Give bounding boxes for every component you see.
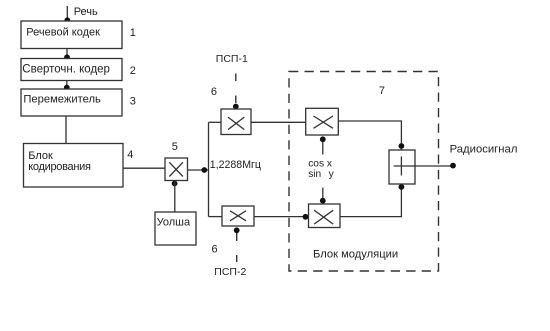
wire: Walsh block up to multiplier 5: [174, 181, 176, 212]
wire: upper mult6 to modulator mult: [251, 121, 306, 123]
multiplier 6 upper: [221, 109, 251, 135]
modulator multiplier lower: [309, 204, 341, 228]
svg-text:Радиосигнал: Радиосигнал: [450, 144, 518, 156]
node: dot below upper modulator multiplier: [320, 136, 326, 142]
svg-text:cos x: cos x: [308, 158, 332, 169]
svg-text:Сверточн. кодер: Сверточн. кодер: [22, 64, 110, 76]
svg-text:Речевой кодек: Речевой кодек: [26, 26, 100, 38]
wire: dashed PN-1 input: [235, 74, 237, 104]
wire: block1 to block2: [66, 49, 68, 59]
block 2: Сверточн. кодер: [21, 59, 122, 81]
block 7: dashed modulation block: [289, 72, 439, 272]
svg-text:6: 6: [212, 243, 218, 255]
node: dot below lower multiplier 6: [234, 227, 240, 233]
block 4: Блок кодирования: [24, 144, 124, 188]
multiplier 5: [165, 158, 188, 181]
multiplier 6 lower: [222, 206, 254, 226]
svg-text:3: 3: [130, 96, 136, 108]
svg-text:5: 5: [172, 141, 178, 153]
wire: vertical split line: [208, 122, 210, 216]
node: dot at top of block 2: [64, 54, 70, 60]
node: dot at adder bottom: [399, 184, 405, 190]
modulator multiplier upper: [306, 108, 339, 135]
svg-text:Речь: Речь: [74, 6, 98, 18]
wire: block2 to block3: [66, 81, 68, 90]
svg-text:ПСП-1: ПСП-1: [216, 53, 248, 65]
svg-text:1,2288Мгц: 1,2288Мгц: [210, 159, 261, 171]
wire: adder plus-bar and output: [394, 165, 453, 167]
wire: carrier cos segment: [322, 141, 324, 155]
node: junction dot right of multiplier 5: [201, 167, 207, 173]
node: dot below multiplier 5: [172, 181, 178, 187]
wire: lower modulator mult to adder: [340, 184, 401, 217]
svg-text:2: 2: [130, 65, 136, 77]
node: dot at top of block 1: [64, 17, 70, 23]
svg-text:Перемежитель: Перемежитель: [23, 94, 101, 106]
block: Уолша: [155, 212, 196, 245]
wire: lower mult6 to modulator mult: [254, 216, 309, 218]
adder: [389, 150, 415, 184]
node: output dot: [450, 163, 456, 169]
svg-text:Уолша: Уолша: [157, 216, 191, 228]
svg-text:кодирования: кодирования: [28, 161, 91, 173]
wire: to upper multiplier 6: [209, 121, 222, 123]
block 1: Речевой кодек: [21, 21, 122, 49]
svg-text:Блок модуляции: Блок модуляции: [313, 249, 398, 261]
node: dot above lower modulator multiplier: [320, 198, 326, 204]
svg-text:sin: sin: [308, 169, 321, 180]
wire: to lower multiplier 6: [209, 216, 223, 218]
svg-text:y: y: [329, 169, 335, 180]
wire: speech input: [66, 6, 68, 21]
node: dot at adder top: [399, 143, 405, 149]
node: dot at input of modulator lower multiplier: [303, 214, 309, 220]
svg-text:7: 7: [379, 85, 385, 97]
wire: dashed PN-2 input: [236, 231, 238, 262]
svg-text:ПСП-2: ПСП-2: [214, 266, 246, 278]
node: dot above upper multiplier 6: [233, 104, 239, 110]
wire: upper modulator mult to adder: [338, 121, 401, 150]
wire: multiplier5 output to split junction: [188, 169, 209, 171]
svg-text:4: 4: [127, 149, 133, 161]
wire: carrier sin segment: [322, 188, 324, 199]
wire: block4 to multiplier 5: [123, 167, 165, 169]
svg-text:6: 6: [211, 86, 217, 98]
wire: block3 to block4: [65, 116, 67, 144]
block 3: Перемежитель: [21, 89, 122, 116]
svg-text:1: 1: [130, 27, 136, 39]
node: dot at top of block 3: [64, 85, 70, 91]
